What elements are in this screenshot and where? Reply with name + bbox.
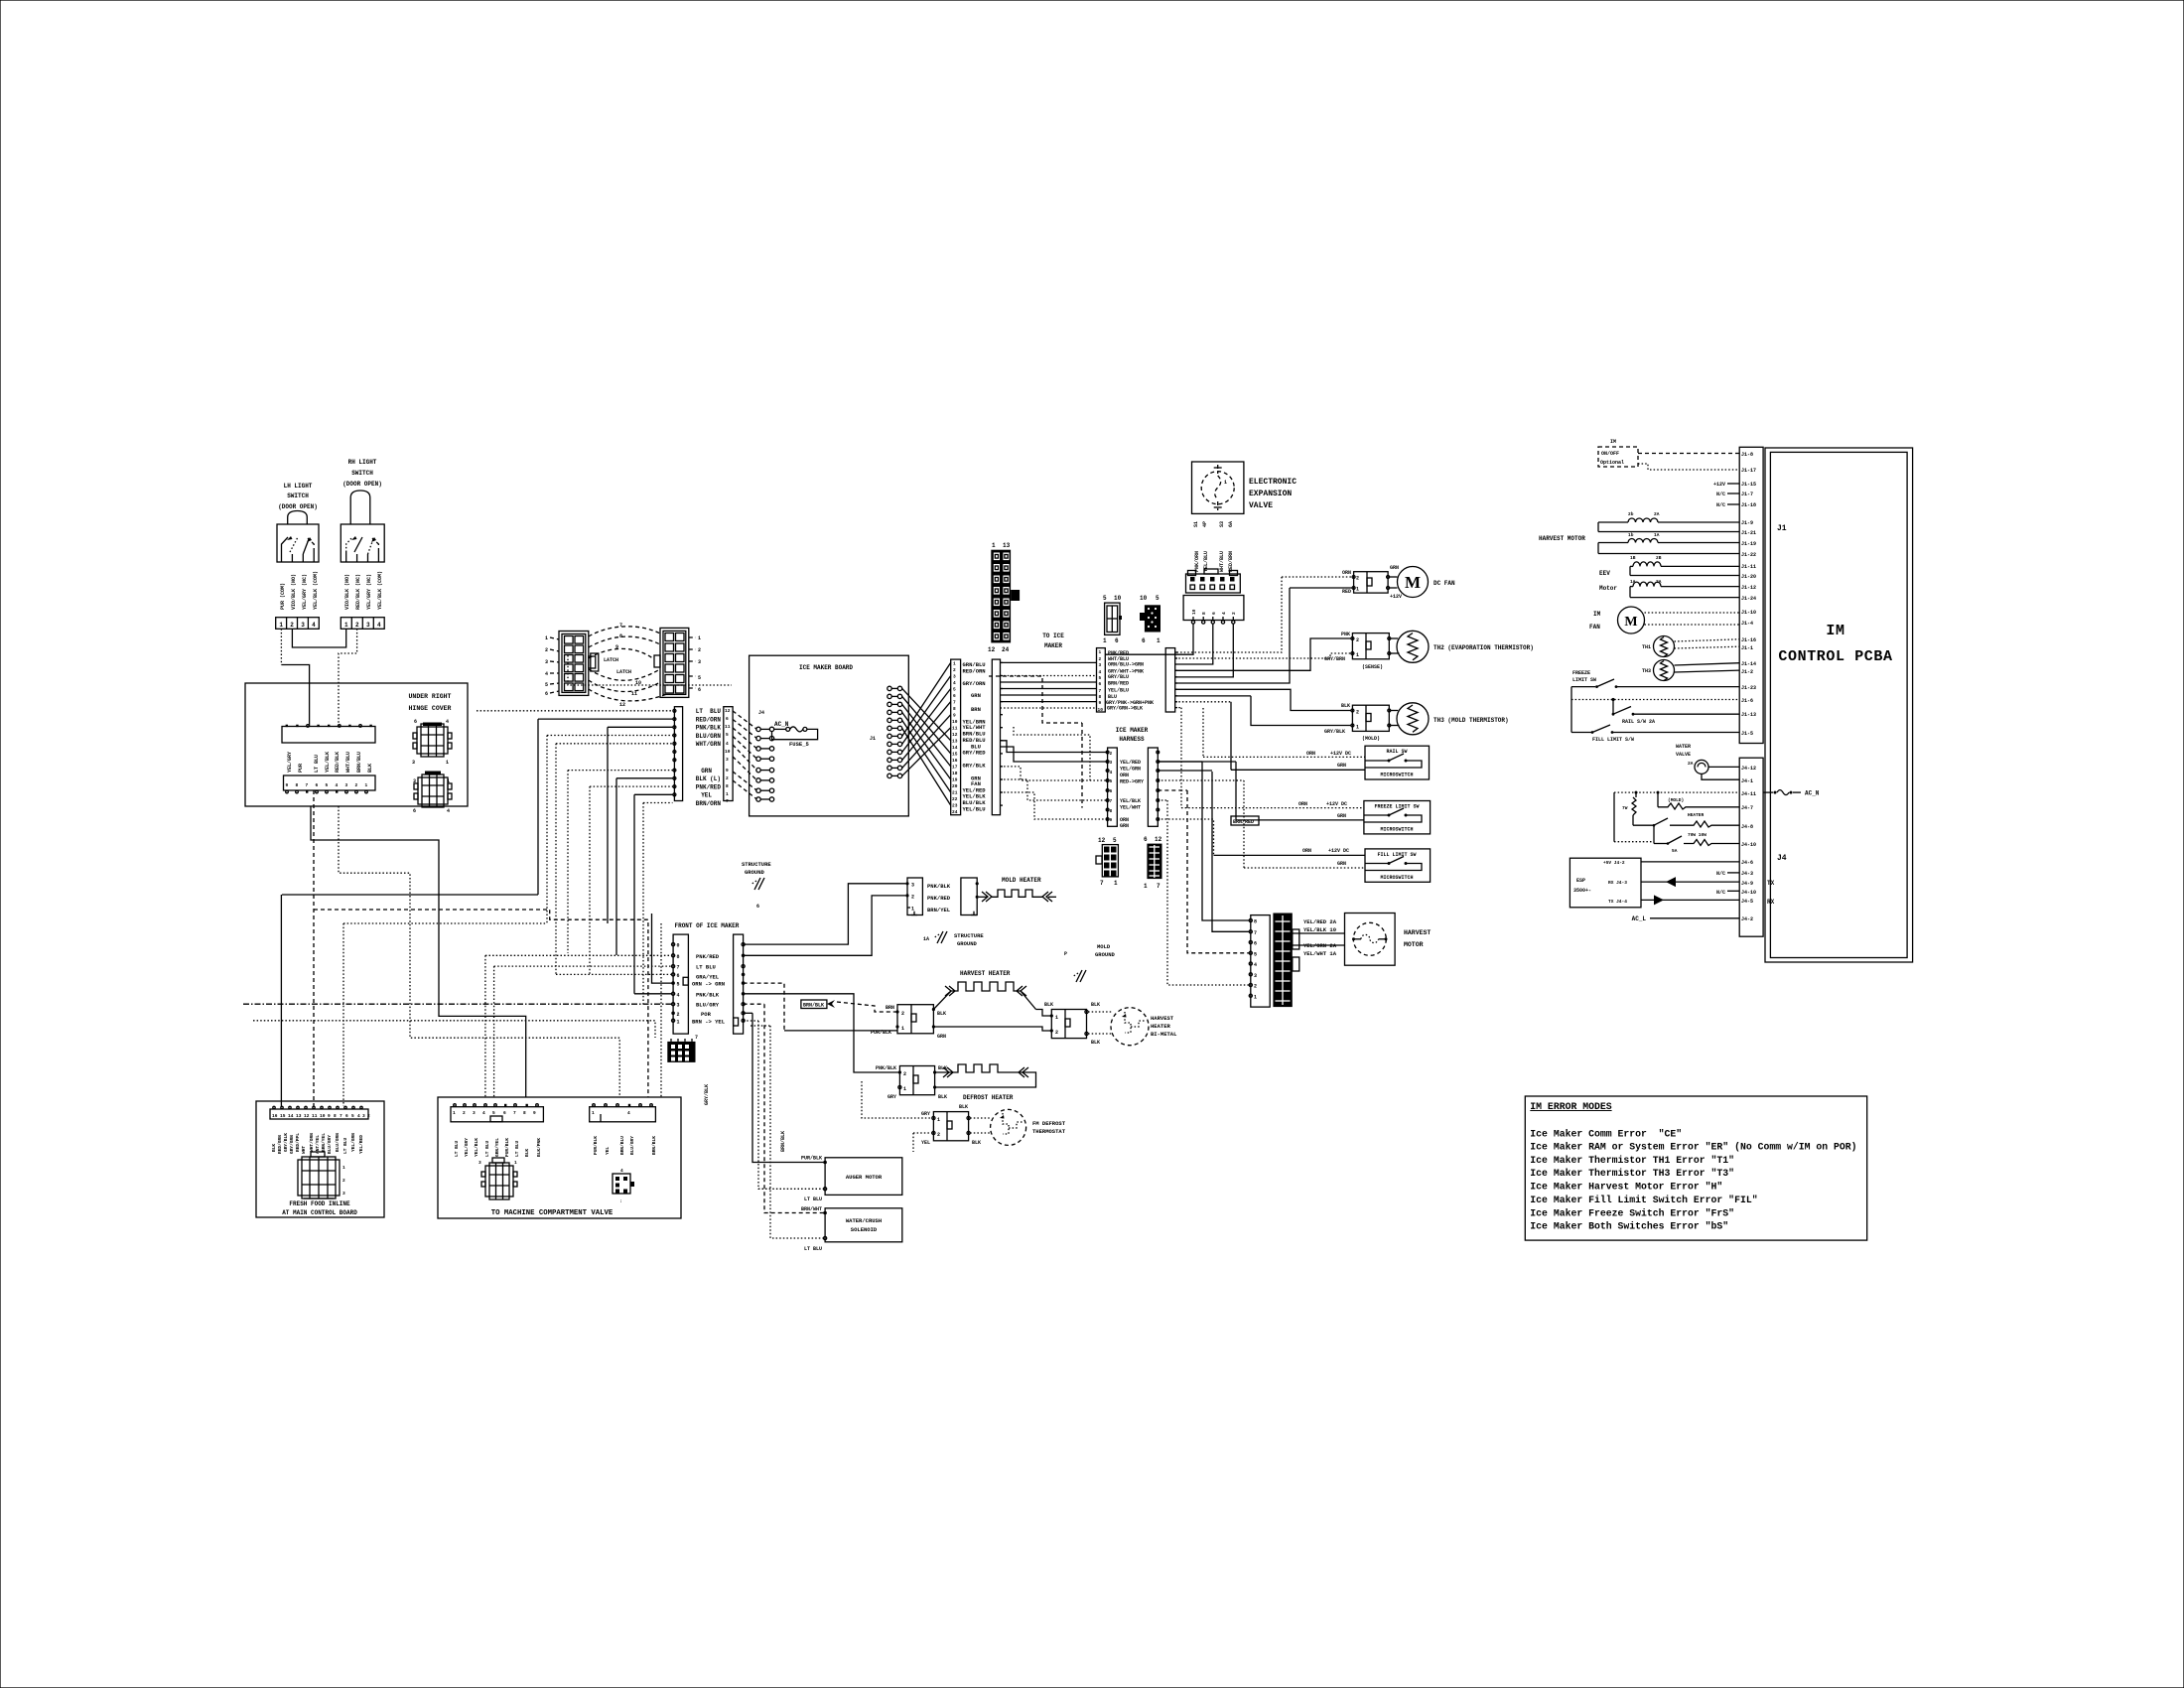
DC fan connector <box>1352 572 1390 593</box>
wire trunk hinge dotted to FF <box>339 806 619 1097</box>
mold heater element <box>979 890 1056 902</box>
svg-text:1: 1 <box>447 778 450 784</box>
svg-text:ORN: ORN <box>1302 848 1311 854</box>
svg-text:GRN: GRN <box>1337 763 1346 769</box>
svg-text:1: 1 <box>1356 652 1359 658</box>
svg-text:BLU/GRY: BLU/GRY <box>327 1135 333 1154</box>
strip A wire labels <box>696 708 722 807</box>
svg-text:7: 7 <box>513 1110 516 1116</box>
svg-text:8: 8 <box>677 954 680 960</box>
svg-text:BLK: BLK <box>271 1144 277 1152</box>
svg-text:4: 4 <box>336 782 339 788</box>
svg-text:5: 5 <box>326 782 329 788</box>
IM control PCBA title <box>1778 623 1892 665</box>
svg-text:TH3 (MOLD THERMISTOR): TH3 (MOLD THERMISTOR) <box>1433 717 1509 724</box>
svg-text:J4: J4 <box>1777 854 1787 863</box>
svg-text:2: 2 <box>545 647 548 653</box>
svg-text:RED/PPL: RED/PPL <box>295 1133 301 1152</box>
svg-text:Ice Maker Both Switches Error: Ice Maker Both Switches Error "bS" <box>1530 1221 1728 1232</box>
svg-text:STRUCTURE: STRUCTURE <box>954 932 984 939</box>
svg-text:BLU/ORN: BLU/ORN <box>335 1133 341 1152</box>
svg-text:BLU/GRN: BLU/GRN <box>696 733 722 740</box>
J1 connector strip <box>1739 447 1763 743</box>
svg-text:YEL/RED 2A: YEL/RED 2A <box>1303 918 1337 925</box>
TH3 thermistor <box>1642 660 1739 681</box>
svg-text:4: 4 <box>545 671 548 677</box>
svg-text:AC_N: AC_N <box>1805 790 1820 797</box>
svg-text:HARVEST: HARVEST <box>1404 929 1431 936</box>
harvest heater feed wires <box>744 983 897 1031</box>
water/crush solenoid box <box>801 1206 902 1252</box>
J2 wire color labels <box>963 661 987 813</box>
svg-text:1: 1 <box>514 1160 517 1166</box>
svg-text:FREEZE LIMIT SW: FREEZE LIMIT SW <box>1374 804 1419 810</box>
svg-text:3: 3 <box>1110 760 1113 766</box>
TH3 thermistor symbol <box>1391 703 1509 735</box>
svg-text:BLK: BLK <box>367 764 373 773</box>
svg-text:PNK/BLK: PNK/BLK <box>696 725 722 732</box>
wire solid front pin4 <box>634 993 672 995</box>
svg-text:GRY: GRY <box>887 1094 896 1100</box>
wire YEL solid <box>634 793 673 795</box>
svg-text:4: 4 <box>953 680 956 686</box>
svg-text:2: 2 <box>355 622 359 629</box>
wire to TH3 <box>1175 689 1351 710</box>
svg-text:J1-5: J1-5 <box>1741 731 1753 737</box>
svg-text:10: 10 <box>952 719 958 725</box>
RH switch wire labels <box>344 571 383 610</box>
svg-text:J1-8: J1-8 <box>1741 452 1753 458</box>
FF wire labels <box>271 1133 364 1154</box>
wires heater right connector <box>933 1010 1111 1035</box>
svg-text:BLK/PNK: BLK/PNK <box>536 1138 542 1157</box>
svg-text:GRY/BLK: GRY/BLK <box>704 1084 710 1105</box>
svg-text:2: 2 <box>367 1113 370 1119</box>
wire trunk solid C <box>282 894 538 896</box>
svg-text:15: 15 <box>280 1113 286 1119</box>
svg-text:9: 9 <box>533 1110 536 1116</box>
svg-text:J4-5: J4-5 <box>1741 899 1753 905</box>
svg-text:YEL/BLU: YEL/BLU <box>1108 687 1129 693</box>
svg-text:TO MACHINE COMPARTMENT VALVE: TO MACHINE COMPARTMENT VALVE <box>491 1209 614 1217</box>
wire to DC fan RED <box>1290 587 1352 589</box>
svg-text:2: 2 <box>355 782 358 788</box>
svg-text:GROUND: GROUND <box>957 940 978 947</box>
svg-text:YEL/GRN: YEL/GRN <box>350 1133 356 1152</box>
svg-text:Motor: Motor <box>1599 585 1617 592</box>
svg-text:AC_N: AC_N <box>774 721 789 728</box>
svg-text:6: 6 <box>545 691 548 697</box>
svg-text:YEL: YEL <box>921 1140 930 1146</box>
svg-text:1: 1 <box>1114 880 1118 887</box>
svg-text:J4-10: J4-10 <box>1741 842 1756 848</box>
svg-text:3: 3 <box>1099 662 1102 668</box>
heater resistor network <box>1614 791 1739 854</box>
svg-text:11: 11 <box>952 726 958 732</box>
svg-text:2: 2 <box>937 1132 940 1138</box>
wire dotted front pin7 <box>556 973 672 975</box>
svg-text:3: 3 <box>362 1113 365 1119</box>
svg-text:BRN/BLK: BRN/BLK <box>780 1131 786 1152</box>
AC_N squiggle <box>1763 790 1820 797</box>
svg-text:BLK: BLK <box>972 1140 981 1146</box>
svg-text:LT BLU: LT BLU <box>454 1140 460 1157</box>
svg-text:J1-24: J1-24 <box>1741 596 1756 602</box>
wire dotted front pin8 <box>494 965 672 967</box>
svg-text:GRY/BLK: GRY/BLK <box>1324 729 1345 735</box>
FILL SW wires <box>1158 780 1365 868</box>
svg-text:Ice Maker Thermistor TH3 Error: Ice Maker Thermistor TH3 Error "T3" <box>1530 1168 1734 1179</box>
FREEZE LIMIT SW microswitch <box>1364 801 1431 834</box>
svg-text:TX J4-4: TX J4-4 <box>1608 899 1627 905</box>
N/C pins top <box>1716 492 1739 508</box>
svg-text:IM: IM <box>1826 623 1844 639</box>
svg-text:BI-METAL: BI-METAL <box>1151 1031 1177 1038</box>
svg-text:1: 1 <box>1103 637 1107 644</box>
svg-text:N/C: N/C <box>1716 492 1725 497</box>
svg-text:2: 2 <box>698 647 701 653</box>
svg-text:2: 2 <box>911 894 914 900</box>
svg-text:J4-7: J4-7 <box>1741 805 1753 811</box>
svg-text:(DOOR OPEN): (DOOR OPEN) <box>278 503 318 510</box>
svg-text:BRN/WHT: BRN/WHT <box>801 1206 822 1212</box>
svg-text:6: 6 <box>953 693 956 699</box>
ice maker input strip A <box>673 707 683 801</box>
svg-text:EEV: EEV <box>1599 570 1610 577</box>
svg-text:4P: 4P <box>1202 521 1208 527</box>
svg-text:HARVEST HEATER: HARVEST HEATER <box>960 970 1011 977</box>
ice maker board box <box>750 655 909 816</box>
svg-text:2: 2 <box>1055 1030 1058 1036</box>
svg-text:WATER/CRUSH: WATER/CRUSH <box>846 1217 882 1224</box>
svg-text:4: 4 <box>726 741 729 747</box>
EEV wire labels <box>1194 551 1234 572</box>
svg-text:1: 1 <box>1099 649 1102 655</box>
harvest heater bi-metal <box>1111 1008 1177 1046</box>
svg-text:22: 22 <box>952 796 958 802</box>
svg-text:16: 16 <box>952 758 958 764</box>
svg-text:YEL/BLK (COM): YEL/BLK (COM) <box>377 571 383 610</box>
svg-text:1: 1 <box>992 542 996 549</box>
harvest heater left connector <box>895 1005 935 1034</box>
EEV pin labels <box>1193 521 1234 527</box>
svg-text:(MOLD): (MOLD) <box>1362 736 1380 742</box>
svg-text:6: 6 <box>503 1110 506 1116</box>
TH3 mold thermistor connector <box>1324 703 1391 742</box>
svg-text:J1-23: J1-23 <box>1741 685 1756 691</box>
svg-text:HARVEST: HARVEST <box>1151 1015 1174 1022</box>
wire trunk dotted A <box>342 923 344 1106</box>
svg-text:+12V DC: +12V DC <box>1330 751 1351 757</box>
wire dotted drop 2 <box>493 966 495 1097</box>
svg-text:7: 7 <box>1254 930 1257 936</box>
svg-text:6: 6 <box>316 782 319 788</box>
svg-text:PNK: PNK <box>1341 632 1350 637</box>
svg-text:1: 1 <box>446 760 449 766</box>
harness wire labels <box>1106 650 1154 712</box>
svg-text:6: 6 <box>1142 637 1146 644</box>
svg-text:J1-19: J1-19 <box>1741 541 1756 547</box>
mold heater feed wires <box>744 884 906 956</box>
TH1 thermistor <box>1642 636 1739 657</box>
svg-text:MOTOR: MOTOR <box>1404 941 1424 948</box>
RH light switch SW2 <box>341 524 384 562</box>
wire trunk hinge to front strip <box>311 806 526 1097</box>
svg-text:HARNESS: HARNESS <box>1119 736 1145 743</box>
svg-text:12: 12 <box>725 708 731 714</box>
ice maker input strip B <box>724 707 733 804</box>
auger motor box <box>801 1156 902 1203</box>
svg-text:9: 9 <box>286 782 289 788</box>
svg-text:1: 1 <box>1356 725 1359 731</box>
FF connector strip <box>270 1106 370 1119</box>
svg-text:2A: 2A <box>1688 761 1694 767</box>
small grid connector 5-10 <box>1103 595 1122 644</box>
svg-text:YEL/BLK: YEL/BLK <box>474 1138 479 1157</box>
structure ground 2 <box>923 931 984 947</box>
svg-text:ORN: ORN <box>1342 570 1351 576</box>
LH terminal strip 1-4 <box>276 618 320 630</box>
harvest heater wire labels <box>871 1005 946 1040</box>
svg-text:2: 2 <box>901 1011 904 1017</box>
svg-text:SOLENOID: SOLENOID <box>851 1226 878 1233</box>
svg-text:3: 3 <box>478 1160 481 1166</box>
svg-text:10: 10 <box>725 749 731 755</box>
svg-text:TH1: TH1 <box>1642 644 1651 650</box>
J2 numbered strip <box>951 659 961 815</box>
small black connector 10-5 <box>1140 595 1160 644</box>
EEV connector lower <box>1183 596 1244 625</box>
FILL LIMIT SW microswitch <box>1365 849 1431 882</box>
svg-text:Ice Maker Comm Error "CE": Ice Maker Comm Error "CE" <box>1530 1128 1682 1139</box>
board right ring terminals <box>887 686 902 777</box>
svg-text:7: 7 <box>953 700 956 706</box>
svg-text:16: 16 <box>272 1113 278 1119</box>
svg-text:J1-4: J1-4 <box>1741 621 1753 627</box>
svg-text:GRN: GRN <box>971 692 981 699</box>
svg-text:RX J4-3: RX J4-3 <box>1608 880 1627 886</box>
wire dotted link <box>343 922 547 924</box>
svg-text:J1-10: J1-10 <box>1741 610 1756 616</box>
svg-text:VIO/BLK (NO): VIO/BLK (NO) <box>344 574 350 610</box>
svg-text:2: 2 <box>677 1012 680 1018</box>
wire LH2-RH1 <box>292 629 345 647</box>
svg-text:11: 11 <box>725 724 731 730</box>
machine relay connector <box>613 1168 634 1204</box>
svg-text:+12V: +12V <box>1390 594 1402 600</box>
svg-text:11: 11 <box>631 691 637 697</box>
harvest motor connector labels <box>1303 918 1337 957</box>
svg-text:2: 2 <box>726 775 729 781</box>
defrost heater element <box>935 1064 1036 1087</box>
svg-text:YEL/BLK: YEL/BLK <box>325 752 331 773</box>
svg-text:6: 6 <box>345 1113 348 1119</box>
svg-text:5: 5 <box>1156 595 1160 602</box>
svg-text:HINGE COVER: HINGE COVER <box>409 705 452 712</box>
svg-text:AC_L: AC_L <box>1632 915 1647 922</box>
wire dashed harness <box>989 676 1082 723</box>
svg-text:10: 10 <box>1098 707 1104 713</box>
svg-text:J4-11: J4-11 <box>1741 791 1756 797</box>
fresh food inline box <box>256 1101 384 1217</box>
ICE MAKER HARNESS caption <box>1116 727 1149 743</box>
svg-text:YEL/RED: YEL/RED <box>358 1135 364 1154</box>
svg-text:YEL/BLK 10: YEL/BLK 10 <box>1303 926 1336 933</box>
svg-text:3: 3 <box>301 622 305 629</box>
svg-text:5: 5 <box>492 1110 495 1116</box>
svg-text:6: 6 <box>756 904 759 910</box>
svg-text:GRY/ORN: GRY/ORN <box>963 680 986 687</box>
svg-text:5: 5 <box>726 732 729 738</box>
svg-text:BRN/BLU: BRN/BLU <box>619 1136 625 1155</box>
svg-text:10: 10 <box>320 1113 326 1119</box>
svg-text:1A: 1A <box>923 936 929 942</box>
svg-text:6A: 6A <box>1228 521 1234 527</box>
svg-text:9: 9 <box>615 644 618 650</box>
svg-text:17: 17 <box>952 765 958 771</box>
svg-text:ICE MAKER: ICE MAKER <box>1116 727 1149 734</box>
latch connector P2 <box>654 628 689 697</box>
svg-text:GRY/BRN: GRY/BRN <box>1324 656 1345 662</box>
svg-text:11: 11 <box>312 1113 318 1119</box>
svg-text:LATCH: LATCH <box>616 669 631 675</box>
boxed label BRN/RED <box>1231 816 1259 825</box>
svg-text:6: 6 <box>698 687 701 693</box>
rail switch at PCBA <box>1612 700 1740 726</box>
svg-text:BRN: BRN <box>886 1005 894 1011</box>
svg-text:M: M <box>1405 573 1421 592</box>
svg-text:8: 8 <box>523 1110 526 1116</box>
svg-text:WHT/GRN: WHT/GRN <box>696 741 722 748</box>
svg-text:3: 3 <box>726 757 729 763</box>
svg-text:3: 3 <box>1254 973 1257 979</box>
svg-text:1: 1 <box>953 661 956 667</box>
wire GRN dotted <box>568 770 673 772</box>
svg-text:POR: POR <box>701 1011 712 1018</box>
svg-text:10: 10 <box>1114 595 1122 602</box>
defrost heater connector <box>876 1065 947 1100</box>
svg-text:3: 3 <box>953 674 956 680</box>
wire dotted front pin1 <box>253 1021 655 1038</box>
svg-text:3: 3 <box>345 782 348 788</box>
harvest motor windings <box>1539 511 1739 554</box>
svg-text:5: 5 <box>1110 778 1113 784</box>
svg-text:BLK: BLK <box>938 1065 947 1071</box>
svg-text:5: 5 <box>1099 675 1102 681</box>
svg-text:3500+-: 3500+- <box>1573 888 1591 894</box>
svg-text:SWITCH: SWITCH <box>351 470 373 477</box>
solenoid wires <box>744 1004 826 1238</box>
svg-text:19: 19 <box>952 777 958 783</box>
EEV connector upper <box>1186 569 1241 593</box>
svg-text:10: 10 <box>1140 595 1148 602</box>
RH light switch caption <box>342 459 382 488</box>
svg-text:TO ICE: TO ICE <box>1042 633 1064 639</box>
wire trunk dotted B <box>484 955 486 1097</box>
svg-text:8: 8 <box>1254 919 1257 925</box>
svg-text:BRN: BRN <box>971 706 981 713</box>
svg-text:+5V J4-2: +5V J4-2 <box>1603 860 1625 866</box>
svg-text:N/C: N/C <box>1716 871 1725 877</box>
svg-text:5: 5 <box>698 675 701 681</box>
svg-text:AT MAIN CONTROL BOARD: AT MAIN CONTROL BOARD <box>282 1209 357 1216</box>
svg-text:2: 2 <box>1110 751 1113 757</box>
svg-text:J1-1: J1-1 <box>1741 645 1753 651</box>
svg-text:6: 6 <box>1211 612 1217 615</box>
svg-text:UNDER RIGHT: UNDER RIGHT <box>409 693 452 700</box>
svg-text:2: 2 <box>342 1178 345 1184</box>
harvest heater element <box>933 982 1035 1010</box>
svg-text:1: 1 <box>279 622 283 629</box>
svg-text:N/C: N/C <box>1716 502 1725 508</box>
svg-text:WHT/BLU: WHT/BLU <box>345 752 351 773</box>
svg-text:GRN: GRN <box>1390 565 1399 571</box>
svg-text:J1-17: J1-17 <box>1741 468 1756 474</box>
EEV motor windings <box>1599 555 1739 598</box>
svg-text:J1-15: J1-15 <box>1741 482 1756 488</box>
svg-text:5: 5 <box>1254 951 1257 957</box>
IM fan motor <box>1589 607 1739 633</box>
boxed label BRN/BLK <box>801 1000 835 1009</box>
ice maker harness strip B <box>1165 648 1177 712</box>
svg-text:1: 1 <box>1356 587 1359 593</box>
svg-text:WHT/ORN: WHT/ORN <box>309 1133 315 1152</box>
svg-text:BLK: BLK <box>524 1149 530 1157</box>
svg-text:8: 8 <box>334 1113 337 1119</box>
latch P2 pin numbers <box>689 635 701 693</box>
svg-text:J1-13: J1-13 <box>1741 712 1756 718</box>
HARVEST MOTOR box <box>1345 914 1432 966</box>
fan wires board to J2 strip <box>902 662 951 805</box>
svg-text:1: 1 <box>1254 994 1257 1000</box>
IM control PCBA outer box <box>1765 448 1913 962</box>
wires J3 to harness strip <box>1001 662 1108 819</box>
svg-text:15: 15 <box>952 752 958 758</box>
svg-text:9: 9 <box>328 1113 331 1119</box>
svg-text:8: 8 <box>296 782 299 788</box>
svg-text:2: 2 <box>1356 710 1359 716</box>
svg-text:1A: 1A <box>1654 532 1660 538</box>
harvest heater right labels <box>1044 1002 1100 1046</box>
latch connector P1 <box>559 632 599 696</box>
dashed J1-6 line <box>1571 687 1739 733</box>
svg-text:7: 7 <box>1110 798 1113 804</box>
svg-text:LT BLU: LT BLU <box>696 708 722 715</box>
RH light switch bulb <box>350 491 370 524</box>
svg-text:7W: 7W <box>1622 805 1628 811</box>
FREEZE SW wires <box>1158 708 1364 820</box>
svg-text:THERMOSTAT: THERMOSTAT <box>1032 1128 1066 1135</box>
svg-text:14: 14 <box>288 1113 294 1119</box>
svg-text:GRA/YEL: GRA/YEL <box>696 974 720 981</box>
svg-text:GRY/RED: GRY/RED <box>963 750 987 757</box>
svg-text:10: 10 <box>1191 609 1197 615</box>
svg-text:PNK/RED: PNK/RED <box>696 783 722 790</box>
lower harness strip A <box>1106 748 1117 826</box>
svg-text:J1-11: J1-11 <box>1741 564 1756 570</box>
machine grid connector <box>478 1158 517 1199</box>
svg-text:J1: J1 <box>1777 524 1787 533</box>
svg-text:BLU/GRY: BLU/GRY <box>629 1136 635 1155</box>
water valve <box>1676 744 1739 779</box>
svg-text:4: 4 <box>1254 962 1257 968</box>
svg-text:3: 3 <box>545 659 548 665</box>
svg-text:LT BLU: LT BLU <box>314 755 320 773</box>
svg-text:RED->GRY: RED->GRY <box>1120 779 1144 785</box>
svg-text:FM DEFROST: FM DEFROST <box>1032 1120 1066 1127</box>
svg-text:ORN: ORN <box>1120 773 1129 778</box>
svg-text:7: 7 <box>1157 883 1160 890</box>
